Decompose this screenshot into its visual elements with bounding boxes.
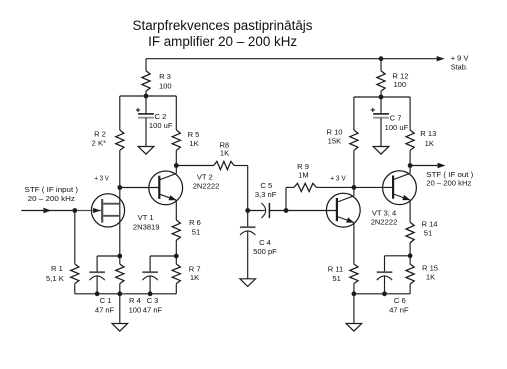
output arrowhead xyxy=(438,163,446,168)
wire R8 down to C4/C5 node xyxy=(247,166,249,211)
svg-text:R 3: R 3 xyxy=(159,72,171,81)
wire right ground rail xyxy=(354,293,410,295)
label +9V Stab. xyxy=(451,53,470,71)
wire VT2 collector xyxy=(175,166,177,174)
resistor R7 xyxy=(172,256,180,294)
svg-text:2N2222: 2N2222 xyxy=(193,182,220,191)
label R2 2K* xyxy=(92,129,106,147)
ground left rail xyxy=(112,324,128,332)
svg-text:R 1: R 1 xyxy=(51,264,63,273)
wire to C1 xyxy=(97,256,120,272)
wire node R10-R12-R13 xyxy=(354,96,410,98)
wire VT2 base xyxy=(120,187,160,189)
label R5 1K xyxy=(188,130,200,148)
svg-text:47 nF: 47 nF xyxy=(389,306,409,315)
title xyxy=(133,17,313,49)
label C2 100uF xyxy=(149,112,173,130)
transistor VT4 xyxy=(326,193,360,227)
svg-text:VT 1: VT 1 xyxy=(138,213,154,222)
label VT3;4 2N2222 xyxy=(371,208,398,226)
svg-text:R 15: R 15 xyxy=(422,264,438,273)
svg-text:100: 100 xyxy=(129,306,142,315)
wire VT4 collector xyxy=(353,187,355,195)
svg-text:100 uF: 100 uF xyxy=(149,121,173,130)
svg-text:STF ( IF input ): STF ( IF input ) xyxy=(25,185,79,194)
svg-text:R 4: R 4 xyxy=(129,296,141,305)
node dot VT2 emitter / C3 / R7 xyxy=(174,254,179,259)
node dot VT1 source / C1 / R4 xyxy=(117,254,122,259)
plus sign C7 xyxy=(371,108,375,112)
capacitor C2 polarized xyxy=(138,96,154,146)
svg-text:VT 2: VT 2 xyxy=(197,172,213,181)
svg-text:R 6: R 6 xyxy=(189,218,201,227)
svg-text:C 1: C 1 xyxy=(100,296,112,305)
capacitor C3 xyxy=(142,272,158,280)
node dot R11 bottom xyxy=(352,291,357,296)
svg-text:3,3 nF: 3,3 nF xyxy=(255,190,277,199)
node dot R8 / C4 / C5 xyxy=(245,208,250,213)
svg-text:R 2: R 2 xyxy=(94,129,106,138)
svg-text:R 5: R 5 xyxy=(188,130,200,139)
svg-text:2 K*: 2 K* xyxy=(92,139,106,148)
transistor VT3 xyxy=(383,171,417,205)
wire +9V top rail xyxy=(146,58,441,60)
node dot R12 bottom xyxy=(379,95,384,100)
wire VT3 base xyxy=(354,186,393,188)
node dot R10 / R9 / VT3 base / VT4 collector xyxy=(352,185,357,190)
svg-text:C 5: C 5 xyxy=(260,181,272,190)
wire C1 bottom xyxy=(96,276,98,294)
resistor R4 xyxy=(116,256,124,294)
wire output line xyxy=(410,165,441,167)
svg-text:+ 9 V: + 9 V xyxy=(451,53,470,62)
capacitor C1 xyxy=(89,272,105,280)
svg-text:1K: 1K xyxy=(190,273,199,282)
label C6 47nF xyxy=(389,296,409,314)
svg-text:R 11: R 11 xyxy=(328,265,343,274)
capacitor C4 xyxy=(240,211,256,279)
wire VT2 emitter to R6 xyxy=(175,200,177,220)
capacitor C7 polarized xyxy=(373,97,389,146)
svg-text:1K: 1K xyxy=(426,273,435,282)
node dot top rail at R12 xyxy=(379,56,384,61)
svg-text:C 2: C 2 xyxy=(155,112,167,121)
label STF IF out xyxy=(426,170,473,188)
plus sign C2 xyxy=(136,108,140,112)
svg-text:1K: 1K xyxy=(220,149,229,158)
svg-text:51: 51 xyxy=(424,229,432,238)
node dot +3V / VT2 base / VT1 drain xyxy=(117,185,122,190)
svg-text:2N3819: 2N3819 xyxy=(133,222,160,231)
ground below C7 xyxy=(373,147,389,155)
svg-text:100: 100 xyxy=(393,80,406,89)
node dot output / R13 / VT3 collector xyxy=(408,163,413,168)
wire VT3 emitter to R14 xyxy=(409,200,411,222)
wire VT4 base xyxy=(286,210,337,212)
resistor R12 xyxy=(377,59,385,97)
svg-text:+ 3 V: + 3 V xyxy=(330,174,346,183)
svg-text:C 6: C 6 xyxy=(394,296,406,305)
label R12 100 xyxy=(392,72,408,89)
svg-text:R 14: R 14 xyxy=(421,220,437,229)
svg-text:R 10: R 10 xyxy=(326,128,342,137)
resistor R10 xyxy=(350,97,358,187)
label R14 51 xyxy=(421,220,437,238)
wire VT3 collector xyxy=(409,166,411,174)
resistor R2 xyxy=(116,96,124,150)
wire left ground rail xyxy=(75,293,177,295)
label C4 500pF xyxy=(253,238,277,256)
svg-text:47 nF: 47 nF xyxy=(143,306,163,315)
wire input line xyxy=(21,210,75,212)
svg-text:47 nF: 47 nF xyxy=(95,306,115,315)
resistor R6 xyxy=(172,220,180,256)
svg-text:15K: 15K xyxy=(328,137,342,146)
label R4 100 xyxy=(129,296,142,314)
label R8 1K xyxy=(219,141,229,158)
svg-text:R 7: R 7 xyxy=(189,264,201,273)
svg-text:1M: 1M xyxy=(298,171,309,180)
svg-text:C 3: C 3 xyxy=(147,296,159,305)
wire to C3 xyxy=(150,256,176,272)
svg-text:Starpfrekvences pastiprinātājs: Starpfrekvences pastiprinātājs xyxy=(133,17,313,33)
transistor VT1 JFET xyxy=(75,194,125,227)
resistor R15 xyxy=(406,256,414,294)
ground below C2 xyxy=(138,147,154,155)
label R1 5,1K xyxy=(46,264,64,283)
svg-text:+ 3 V: + 3 V xyxy=(94,174,109,183)
svg-text:STF ( IF out ): STF ( IF out ) xyxy=(426,170,473,179)
input arrowhead xyxy=(43,208,51,213)
wire C3 bottom xyxy=(149,276,151,294)
node dot R5-R8-VT2 collector xyxy=(174,163,179,168)
wire R2 bottom to +3V node and VT1 xyxy=(119,150,121,256)
+9V arrowhead xyxy=(437,56,445,61)
node dot C1 bottom xyxy=(95,291,100,296)
svg-text:R 9: R 9 xyxy=(297,162,309,171)
svg-text:1K: 1K xyxy=(425,139,434,148)
svg-text:100: 100 xyxy=(159,81,172,90)
label R13 1K xyxy=(420,129,436,148)
label R6 51 xyxy=(189,218,201,237)
label R3 100 xyxy=(159,72,172,90)
ground below C4 xyxy=(240,279,256,287)
resistor R3 xyxy=(142,59,150,96)
wire ground stem left xyxy=(119,294,121,324)
resistor R14 xyxy=(406,222,414,256)
node dot R14 / R15 / C6 xyxy=(408,253,413,258)
svg-text:R 13: R 13 xyxy=(420,129,436,138)
label R15 1K xyxy=(422,264,438,282)
svg-text:2N2222: 2N2222 xyxy=(371,218,398,227)
label R7 1K xyxy=(189,264,201,282)
wire to C6 xyxy=(385,256,411,272)
svg-text:C 7: C 7 xyxy=(390,114,402,123)
capacitor C6 xyxy=(377,272,393,280)
node dot C3 bottom xyxy=(148,291,153,296)
svg-text:C 4: C 4 xyxy=(259,238,271,247)
svg-text:51: 51 xyxy=(332,274,340,283)
label VT1 2N3819 xyxy=(133,213,160,231)
resistor R5 xyxy=(172,96,180,166)
transistor VT2 xyxy=(149,171,183,205)
node dot C5 / R9 / VT4 base xyxy=(284,208,289,213)
wire ground stem right xyxy=(353,294,355,324)
VT1 gate arrowhead xyxy=(93,208,100,213)
wire VT4 emitter to R11 xyxy=(353,223,355,265)
label C7 100uF xyxy=(385,114,409,132)
resistor R13 xyxy=(406,97,414,166)
svg-text:5,1 K: 5,1 K xyxy=(46,274,64,283)
label R10 15K xyxy=(326,128,342,146)
node dot C6 bottom xyxy=(382,291,387,296)
svg-text:500 pF: 500 pF xyxy=(253,247,277,256)
wire C6 bottom xyxy=(384,276,386,294)
label STF IF input xyxy=(25,185,79,203)
svg-text:IF amplifier 20 – 200 kHz: IF amplifier 20 – 200 kHz xyxy=(148,33,297,49)
svg-text:1K: 1K xyxy=(189,139,198,148)
svg-text:20 – 200 kHz: 20 – 200 kHz xyxy=(426,179,471,188)
capacitor C5 xyxy=(248,203,286,218)
svg-text:20 – 200 kHz: 20 – 200 kHz xyxy=(28,194,76,203)
label R11 51 xyxy=(328,265,343,284)
node dot input / R1 / gate xyxy=(72,208,77,213)
ground right rail xyxy=(346,324,362,332)
label C3 47nF xyxy=(143,296,163,314)
resistor R1 xyxy=(71,211,79,294)
svg-text:100 uF: 100 uF xyxy=(385,123,409,132)
resistor R8 xyxy=(176,161,247,169)
svg-text:VT 3; 4: VT 3; 4 xyxy=(372,208,396,217)
resistor R11 xyxy=(350,264,358,294)
node dot R3 bottom xyxy=(144,94,149,99)
svg-text:51: 51 xyxy=(192,228,200,237)
svg-text:Stab.: Stab. xyxy=(451,63,468,72)
wire node R3-R2-R5 xyxy=(120,95,177,97)
label VT2 2N2222 xyxy=(193,172,220,190)
node dot R4 bottom xyxy=(117,291,122,296)
resistor R9 xyxy=(286,183,354,210)
label R9 1M xyxy=(297,162,309,180)
label C1 47nF xyxy=(95,296,115,314)
label C5 3,3nF xyxy=(255,181,277,199)
